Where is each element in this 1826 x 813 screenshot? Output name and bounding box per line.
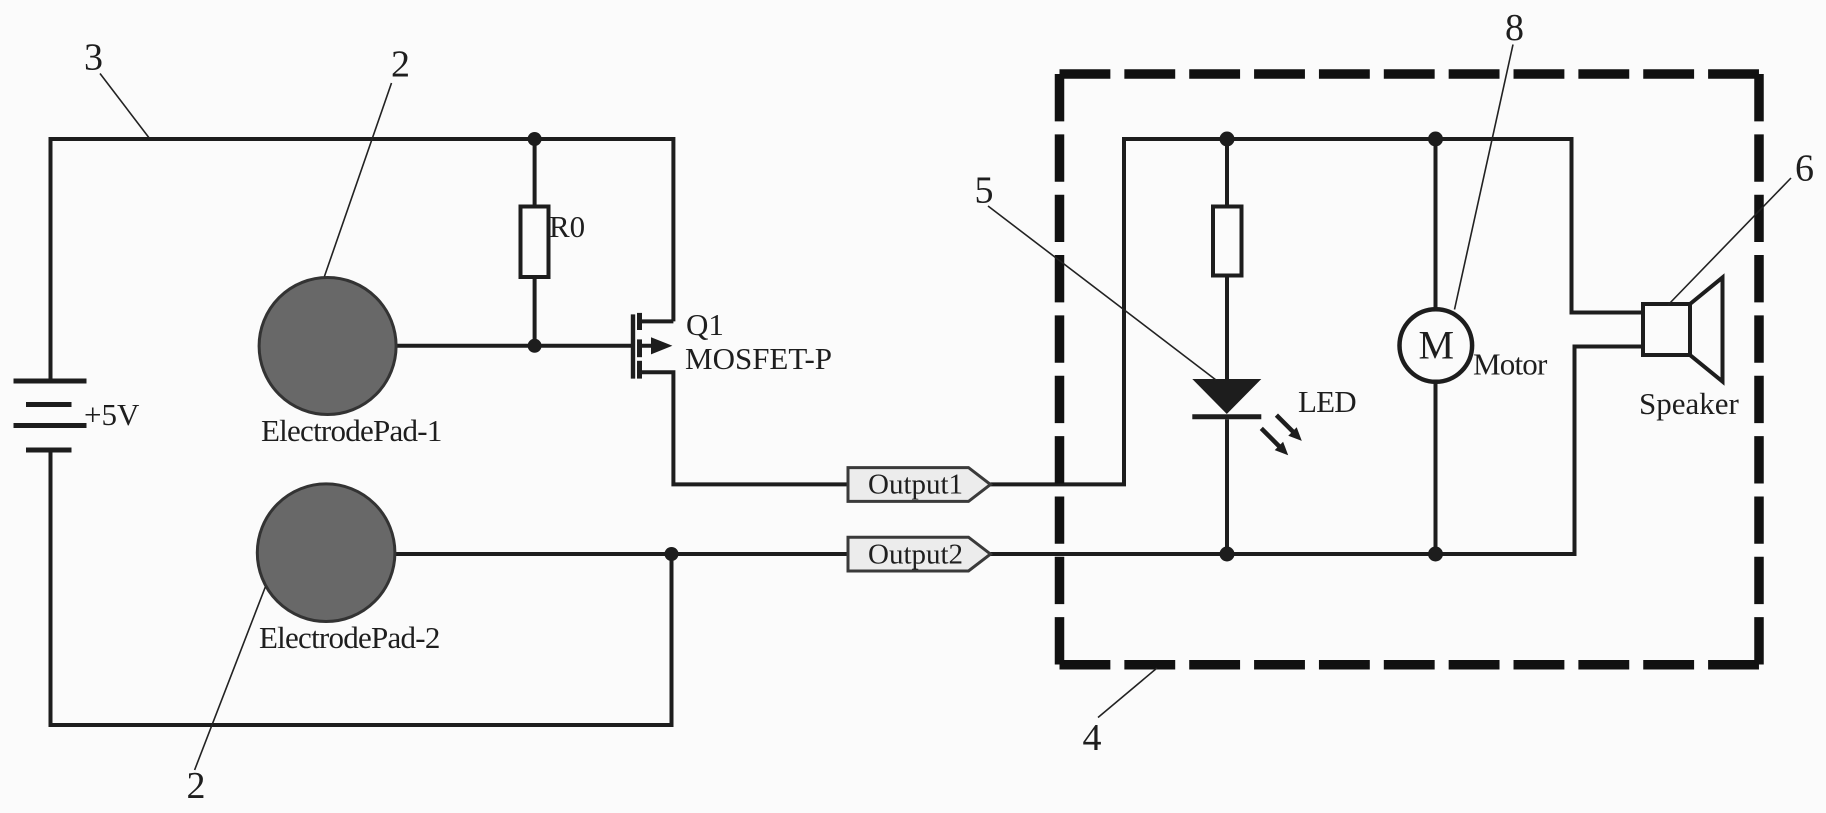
transistor Q1 channel segment middle xyxy=(637,339,642,357)
resistor R0 body xyxy=(521,207,549,278)
resistor of LED branch body xyxy=(1213,207,1242,276)
dashed block border 4: right xyxy=(1754,74,1764,665)
svg-text:Q1: Q1 xyxy=(686,307,724,342)
Output2 flag xyxy=(848,537,991,571)
wire from ElectrodePad-2 to Output2 flag xyxy=(394,552,848,556)
svg-text:MOSFET-P: MOSFET-P xyxy=(685,341,832,376)
dashed block border 4: bottom xyxy=(1060,660,1760,670)
Output1 flag xyxy=(848,468,991,502)
transistor Q1 channel segment bottom xyxy=(637,361,642,379)
ElectrodePad-1 disc xyxy=(259,278,396,415)
svg-text:2: 2 xyxy=(391,44,410,86)
battery BT1 plate 3 (long) xyxy=(14,423,87,428)
leader line for label 2 (bottom) xyxy=(195,587,266,771)
transistor Q1 channel segment top xyxy=(637,313,642,330)
node: inner bottom rail / motor branch xyxy=(1428,547,1443,562)
dashed block border 4: top xyxy=(1060,69,1760,79)
transistor Q1 arrow head xyxy=(651,337,672,354)
leader line for label 3 xyxy=(100,74,149,138)
transistor Q1 gate bar xyxy=(631,314,635,378)
LED light arrow 1 shaft xyxy=(1276,415,1294,433)
leader line for label 4 xyxy=(1098,668,1157,718)
battery BT1 plate 2 (short) xyxy=(26,402,72,407)
transistor Q1 drain stub xyxy=(640,319,674,323)
svg-text:3: 3 xyxy=(84,37,103,79)
speaker horn xyxy=(1690,278,1723,382)
wire from ElectrodePad-1 to MOSFET gate xyxy=(396,344,631,348)
node: inner top rail / LED branch xyxy=(1220,132,1235,147)
transistor Q1 bulk stub with arrow line xyxy=(640,344,657,348)
wire from Output2 tip along inner bottom rail up to speaker bottom terminal xyxy=(991,347,1644,555)
svg-text:8: 8 xyxy=(1505,7,1524,49)
wire outer loop: left vertical + top rail + drain drop xyxy=(51,139,674,379)
wire from inner top rail to LED resistor xyxy=(1225,139,1229,207)
wire from top rail to resistor R0 xyxy=(533,139,537,207)
node: top rail / R0 junction xyxy=(528,132,542,146)
svg-text:6: 6 xyxy=(1795,148,1814,190)
ElectrodePad-2 disc xyxy=(257,484,395,622)
svg-text:ElectrodePad-2: ElectrodePad-2 xyxy=(259,620,440,655)
wire from motor to inner bottom rail xyxy=(1434,382,1438,554)
svg-text:2: 2 xyxy=(187,765,206,807)
svg-text:+5V: +5V xyxy=(84,397,140,432)
leader line for label 2 (top) xyxy=(324,83,391,277)
LED D1 triangle xyxy=(1192,379,1261,414)
leader line for label 5 xyxy=(988,206,1216,380)
battery BT1 plate 4 (short) xyxy=(26,448,72,453)
svg-text:ElectrodePad-1: ElectrodePad-1 xyxy=(261,413,442,448)
svg-text:Motor: Motor xyxy=(1473,347,1548,382)
svg-text:Speaker: Speaker xyxy=(1639,386,1740,421)
wire from Output1 tip up to inner top rail across to speaker top terminal xyxy=(991,139,1644,484)
leader line for label 8 xyxy=(1455,45,1514,310)
wire from LED cathode to inner bottom rail xyxy=(1225,419,1229,554)
svg-text:LED: LED xyxy=(1298,384,1356,419)
node: gate / R0 junction xyxy=(528,339,542,353)
battery BT1 plate 1 (long) xyxy=(14,379,87,384)
wire from LED resistor to LED anode xyxy=(1225,276,1229,380)
dashed block border 4: left xyxy=(1055,74,1065,665)
LED light arrow 2 shaft xyxy=(1261,428,1280,447)
LED D1 cathode bar xyxy=(1192,414,1261,419)
wire from inner top rail to motor xyxy=(1434,139,1438,309)
svg-text:M: M xyxy=(1419,323,1455,368)
svg-text:4: 4 xyxy=(1083,717,1102,759)
motor M body circle xyxy=(1400,309,1473,382)
node: inner top rail / motor branch xyxy=(1428,132,1443,147)
transistor Q1 source stub and wire down to Output1 flag xyxy=(640,372,849,484)
LED light arrow 1 head xyxy=(1288,427,1302,441)
leader line for label 6 xyxy=(1668,178,1791,305)
node: Output2 / bottom rail junction xyxy=(665,547,679,561)
svg-text:R0: R0 xyxy=(549,209,585,244)
svg-text:5: 5 xyxy=(975,170,994,212)
speaker driver box xyxy=(1643,304,1690,355)
node: inner bottom rail / LED branch xyxy=(1220,547,1235,562)
wire from resistor R0 to gate node xyxy=(533,277,537,346)
svg-text:Output2: Output2 xyxy=(868,539,963,571)
LED light arrow 2 head xyxy=(1275,442,1289,456)
svg-text:Output1: Output1 xyxy=(868,469,963,501)
wire outer loop: battery bottom to bottom rail up to Output2 junction xyxy=(51,453,672,726)
